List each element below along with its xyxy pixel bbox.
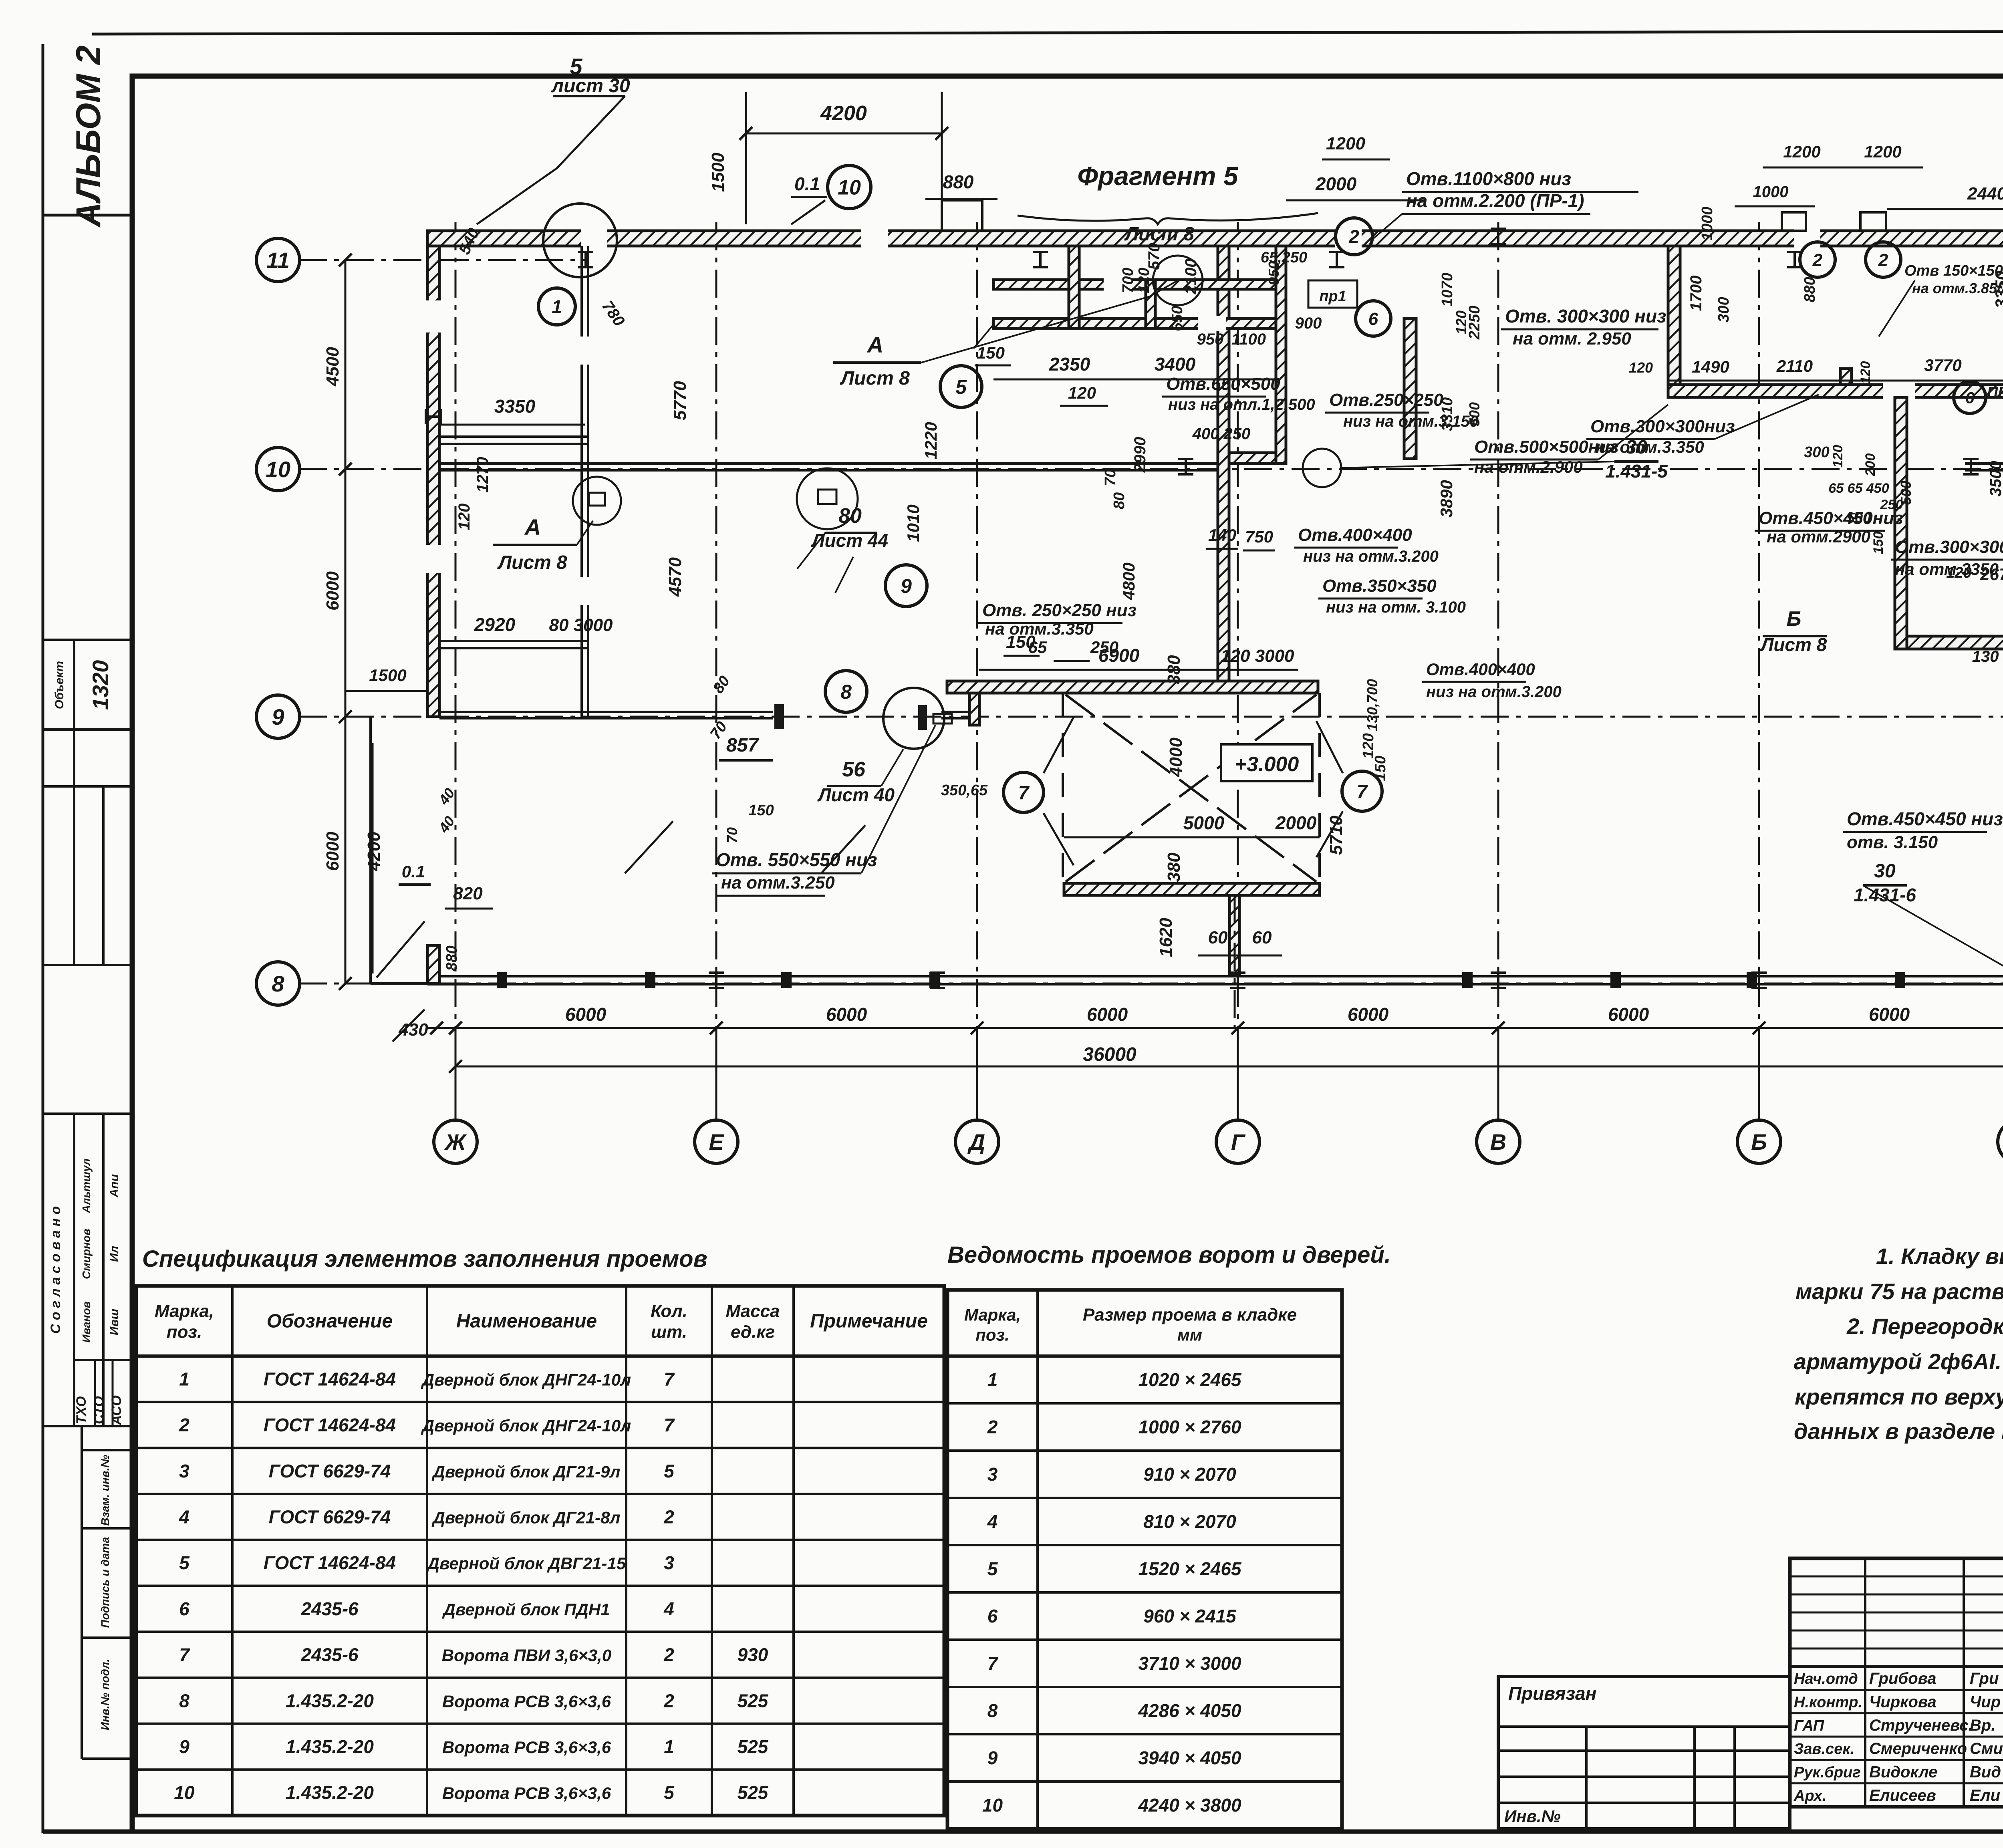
marker circle 7 left [1004, 772, 1044, 812]
bottom frame [43, 1830, 2003, 1834]
svg-text:6000: 6000 [323, 571, 343, 611]
svg-text:880: 880 [943, 171, 974, 192]
circled 2 mid [1336, 218, 1372, 255]
svg-text:7: 7 [664, 1415, 675, 1435]
svg-text:7: 7 [987, 1653, 999, 1674]
svg-text:на отм.2.900: на отм.2.900 [1474, 457, 1583, 476]
svg-text:Лист 8: Лист 8 [840, 368, 910, 389]
svg-text:Апи: Апи [108, 1174, 121, 1198]
svg-text:А: А [524, 514, 541, 540]
svg-text:1320: 1320 [88, 660, 113, 710]
svg-text:6000: 6000 [1087, 1004, 1128, 1025]
svg-text:1700: 1700 [1687, 276, 1705, 311]
svg-text:на отм.3.250: на отм.3.250 [721, 873, 835, 893]
svg-text:СТО: СТО [91, 1396, 107, 1424]
svg-text:1620: 1620 [1156, 918, 1176, 957]
svg-text:9: 9 [179, 1736, 189, 1757]
svg-text:отв. 3.150: отв. 3.150 [1847, 832, 1938, 852]
grid column axis Б [1758, 222, 1760, 1121]
wall anchor symbol [1751, 973, 1767, 988]
svg-text:Ели: Ели [1970, 1787, 2000, 1804]
grid circle Е [695, 1120, 738, 1163]
svg-text:525: 525 [738, 1782, 769, 1803]
svg-text:Ворота РСВ 3,6×3,6: Ворота РСВ 3,6×3,6 [442, 1738, 611, 1757]
svg-text:6000: 6000 [1869, 1004, 1910, 1025]
svg-text:5: 5 [955, 376, 967, 398]
svg-text:6000: 6000 [565, 1004, 607, 1025]
svg-text:0.1: 0.1 [794, 173, 820, 194]
svg-text:на отм.2.200 (ПР-1): на отм.2.200 (ПР-1) [1406, 190, 1584, 211]
grid circle В [1477, 1120, 1520, 1163]
svg-text:430: 430 [398, 1020, 428, 1040]
circled 10 leader [828, 165, 871, 209]
svg-text:Ворота ПВИ 3,6×3,0: Ворота ПВИ 3,6×3,0 [442, 1646, 611, 1665]
svg-text:2250: 2250 [1466, 306, 1483, 340]
svg-text:10: 10 [174, 1782, 195, 1803]
svg-text:низ на отм. 3.100: низ на отм. 3.100 [1326, 599, 1466, 616]
svg-text:650: 650 [1169, 306, 1186, 331]
svg-text:5: 5 [664, 1461, 675, 1481]
svg-text:Отв.450×450низ: Отв.450×450низ [1759, 508, 1903, 528]
wall anchor symbol [1178, 459, 1193, 474]
svg-text:Отв.400×400: Отв.400×400 [1426, 660, 1535, 679]
title block attachment table left [1498, 1677, 1790, 1829]
svg-text:Ж: Ж [444, 1129, 467, 1155]
wall anchor symbol [1230, 973, 1245, 988]
svg-text:130,700: 130,700 [1364, 679, 1380, 731]
svg-text:4240 × 3800: 4240 × 3800 [1138, 1795, 1241, 1816]
svg-text:30: 30 [1626, 437, 1647, 458]
wall anchor symbol [578, 252, 593, 267]
detail circle 80/44 [797, 468, 858, 529]
svg-text:6: 6 [179, 1598, 189, 1619]
svg-text:1010: 1010 [904, 504, 923, 542]
svg-text:120: 120 [1946, 564, 1971, 581]
top-right room wall vertical [1668, 246, 1680, 385]
svg-text:40: 40 [435, 813, 458, 836]
svg-text:низ на отм.3.200: низ на отм.3.200 [1303, 548, 1439, 565]
underbrace list 8 [1018, 213, 1318, 224]
svg-text:ПР-1: ПР-1 [1987, 384, 2003, 401]
svg-text:80 3000: 80 3000 [549, 615, 613, 635]
svg-text:200: 200 [1863, 453, 1878, 477]
svg-text:6000: 6000 [826, 1004, 867, 1025]
svg-text:2: 2 [1878, 250, 1888, 270]
svg-text:2000: 2000 [1275, 812, 1317, 833]
svg-text:Отв.400×400: Отв.400×400 [1298, 525, 1412, 545]
svg-text:950: 950 [1265, 261, 1282, 285]
door detail circle row9 [883, 688, 944, 749]
svg-text:1520 × 2465: 1520 × 2465 [1138, 1558, 1242, 1579]
svg-text:780: 780 [598, 298, 628, 330]
svg-text:Дверной блок ДНГ24-10л: Дверной блок ДНГ24-10л [421, 1416, 631, 1435]
svg-text:570: 570 [1145, 243, 1163, 270]
svg-text:1: 1 [179, 1368, 189, 1389]
svg-text:Отв.300×300низ: Отв.300×300низ [1895, 537, 2003, 557]
svg-text:80: 80 [1111, 492, 1128, 509]
svg-text:шт.: шт. [651, 1322, 687, 1342]
pier in band [1840, 369, 1852, 385]
svg-text:1.431-6: 1.431-6 [1854, 885, 1916, 905]
svg-text:4200: 4200 [364, 832, 384, 871]
break diagonals on left porch [625, 821, 865, 873]
svg-text:3350: 3350 [494, 396, 536, 417]
svg-text:на отм.2900: на отм.2900 [1767, 527, 1870, 546]
svg-text:2: 2 [663, 1644, 674, 1665]
svg-text:2440: 2440 [1967, 184, 2003, 204]
svg-text:120: 120 [455, 504, 473, 530]
svg-text:120 3000: 120 3000 [1221, 646, 1294, 666]
svg-text:6: 6 [1368, 309, 1378, 329]
wall anchor symbol [1033, 252, 1048, 267]
svg-text:3940 × 4050: 3940 × 4050 [1138, 1747, 1241, 1768]
top-middle pier [1069, 246, 1079, 328]
svg-text:525: 525 [738, 1736, 769, 1757]
svg-text:ТХО: ТХО [74, 1396, 89, 1424]
svg-text:ед.кг: ед.кг [731, 1322, 775, 1342]
svg-text:2: 2 [1348, 226, 1359, 247]
grid circle Г [1216, 1120, 1259, 1163]
wall anchor symbol [1491, 973, 1506, 988]
svg-text:Лист 8: Лист 8 [1124, 224, 1194, 245]
svg-text:56: 56 [842, 758, 866, 781]
svg-text:4: 4 [179, 1506, 189, 1527]
svg-text:ГАП: ГАП [1794, 1717, 1824, 1734]
wall anchor symbol [426, 409, 441, 424]
left dimension chain [345, 260, 347, 983]
svg-text:2: 2 [179, 1415, 189, 1435]
wall anchor symbol [1787, 252, 1802, 267]
top-middle partition bands [993, 280, 1276, 289]
wall anchor symbol [1963, 459, 1979, 474]
svg-text:1500: 1500 [708, 153, 728, 192]
svg-text:960 × 2415: 960 × 2415 [1143, 1606, 1237, 1626]
svg-text:3: 3 [987, 1464, 998, 1485]
svg-text:9: 9 [272, 704, 284, 730]
svg-text:1000: 1000 [1753, 183, 1789, 201]
svg-text:1200: 1200 [1864, 142, 1901, 161]
svg-text:300: 300 [1804, 444, 1829, 461]
svg-text:3350: 3350 [1992, 271, 2003, 308]
svg-text:2000: 2000 [1315, 173, 1357, 194]
svg-text:Иванов: Иванов [80, 1301, 93, 1342]
svg-text:Марка,: Марка, [964, 1306, 1021, 1324]
svg-text:Чир: Чир [1970, 1693, 2001, 1711]
circled 8 [825, 671, 867, 712]
svg-text:1: 1 [987, 1369, 998, 1390]
+3.000 level box [1221, 744, 1312, 781]
svg-text:Гри: Гри [1970, 1670, 1999, 1687]
svg-text:Д: Д [967, 1129, 985, 1155]
svg-text:Отв.650×500: Отв.650×500 [1166, 374, 1280, 394]
svg-text:525: 525 [738, 1690, 769, 1711]
svg-text:857: 857 [726, 735, 759, 756]
svg-text:4286 × 4050: 4286 × 4050 [1138, 1700, 1241, 1721]
svg-text:10: 10 [982, 1795, 1003, 1816]
svg-text:910 × 2070: 910 × 2070 [1143, 1464, 1236, 1485]
grid circle 11 [256, 238, 300, 282]
svg-text:2100: 2100 [1182, 259, 1200, 295]
svg-text:крепятся по верху при помо: крепятся по верху при помощи ветровых ри… [1795, 1384, 2003, 1409]
svg-text:2: 2 [987, 1417, 998, 1437]
svg-text:40: 40 [435, 785, 458, 808]
svg-text:на отм.3.350: на отм.3.350 [1596, 437, 1704, 456]
svg-text:1500: 1500 [369, 666, 406, 685]
svg-text:Зав.сек.: Зав.сек. [1794, 1741, 1854, 1757]
svg-text:1. Кладку выполнять из полн: 1. Кладку выполнять из полнотелого кирпи… [1876, 1243, 2003, 1269]
svg-text:низ на отл.1,2.500: низ на отл.1,2.500 [1168, 396, 1315, 413]
wall anchor symbol [1329, 252, 1344, 267]
svg-text:820: 820 [453, 884, 483, 903]
svg-text:150: 150 [977, 343, 1005, 362]
svg-text:3710 × 3000: 3710 × 3000 [1138, 1653, 1241, 1674]
grid column axis Г [1237, 222, 1239, 1121]
svg-text:АСО: АСО [109, 1395, 124, 1425]
svg-text:Взам. инв.№: Взам. инв.№ [99, 1455, 111, 1526]
grid column axis В [1497, 222, 1499, 1121]
svg-text:880: 880 [443, 945, 460, 971]
grid circle 10 [256, 447, 300, 491]
marker circle 7 right [1342, 771, 1382, 811]
left strip empty boxes [43, 785, 132, 788]
svg-text:Ивш: Ивш [108, 1308, 121, 1335]
svg-text:Обозначение: Обозначение [267, 1311, 393, 1332]
svg-text:6: 6 [1965, 389, 1975, 407]
svg-text:380: 380 [1164, 852, 1184, 882]
svg-text:80: 80 [838, 504, 862, 528]
svg-text:Ведомость проемов ворот и дв: Ведомость проемов ворот и дверей. [947, 1242, 1391, 1268]
grid circle 9 [256, 695, 300, 738]
bottom dimension line 36000 [455, 1066, 2003, 1068]
svg-text:300: 300 [1715, 297, 1732, 322]
interior wall along row 10 [439, 462, 1218, 465]
svg-text:на отм.3.350: на отм.3.350 [985, 619, 1094, 638]
left strip: Objekt 1320 box [43, 639, 132, 641]
svg-text:Смериченко: Смериченко [1869, 1740, 1967, 1757]
svg-text:Инв.№: Инв.№ [1504, 1807, 1561, 1826]
svg-text:0.1: 0.1 [402, 862, 425, 881]
grid circle Ж [434, 1120, 477, 1163]
dimension inside ramp [1064, 836, 1320, 838]
svg-text:2435-6: 2435-6 [300, 1598, 359, 1619]
svg-text:Размер проема в кладке: Размер проема в кладке [1083, 1305, 1297, 1325]
svg-text:6000: 6000 [323, 832, 343, 871]
svg-text:Ворота РСВ 3,6×3,6: Ворота РСВ 3,6×3,6 [442, 1692, 611, 1711]
svg-text:Спецификация элементов запол: Спецификация элементов заполнения проемо… [142, 1246, 707, 1272]
bottom wall (thin with gate openings) [427, 975, 2003, 977]
svg-text:А: А [866, 332, 883, 357]
svg-text:1220: 1220 [921, 422, 940, 459]
svg-text:120: 120 [1360, 733, 1377, 758]
top-right partition band [1668, 385, 2003, 397]
svg-text:низ на отм.3.150: низ на отм.3.150 [1343, 413, 1479, 430]
grid column axis Е [715, 222, 717, 1121]
svg-text:ГОСТ 14624-84: ГОСТ 14624-84 [264, 1368, 396, 1389]
svg-text:750: 750 [1245, 527, 1273, 546]
circled 1 [538, 288, 575, 325]
circled 6 mid [1356, 301, 1391, 336]
svg-text:+3.000: +3.000 [1235, 753, 1299, 776]
svg-text:70: 70 [724, 827, 740, 843]
svg-text:80: 80 [710, 673, 733, 697]
svg-text:Отв.450×450 низ: Отв.450×450 низ [1847, 808, 2003, 829]
svg-text:70: 70 [1102, 469, 1119, 486]
svg-text:Лист 40: Лист 40 [817, 784, 895, 805]
mid dims under partition [993, 379, 1274, 381]
top-left partitions [580, 246, 583, 717]
svg-text:3: 3 [179, 1461, 189, 1481]
svg-text:6000: 6000 [1608, 1004, 1649, 1025]
svg-text:2: 2 [663, 1506, 674, 1527]
svg-text:140: 140 [1208, 526, 1236, 544]
svg-text:30: 30 [1874, 861, 1896, 882]
svg-text:9: 9 [901, 575, 912, 597]
wall anchor symbol [709, 973, 724, 988]
svg-text:65: 65 [1028, 638, 1047, 657]
svg-text:250: 250 [1090, 638, 1118, 657]
grid circle Д [955, 1120, 999, 1163]
svg-text:930: 930 [738, 1644, 768, 1665]
svg-text:Отв. 300×300 низ: Отв. 300×300 низ [1505, 306, 1666, 326]
bottom dimension line 6000s [427, 1027, 2003, 1029]
svg-text:3: 3 [664, 1552, 674, 1573]
vestibule bump top [941, 200, 943, 231]
svg-text:2920: 2920 [474, 614, 516, 635]
svg-text:Отв.350×350: Отв.350×350 [1322, 576, 1437, 596]
svg-text:Наименование: Наименование [456, 1311, 597, 1332]
svg-text:3500: 3500 [1987, 461, 2003, 497]
svg-text:60: 60 [1208, 928, 1228, 947]
svg-text:1: 1 [552, 296, 562, 317]
grid column axis Ж [455, 222, 457, 1121]
svg-text:Струченевс.: Струченевс. [1869, 1717, 1973, 1734]
circled 5 [940, 366, 982, 407]
svg-text:500: 500 [1898, 481, 1914, 505]
pier under ramp [1229, 895, 1239, 973]
svg-text:120: 120 [1858, 361, 1873, 384]
svg-text:Объект: Объект [53, 661, 66, 709]
svg-text:Лист 44: Лист 44 [811, 530, 888, 551]
svg-text:низ на отм.3.200: низ на отм.3.200 [1426, 683, 1562, 701]
svg-text:ГОСТ 14624-84: ГОСТ 14624-84 [264, 1415, 396, 1435]
top-right parapet bumps [1782, 212, 1806, 231]
svg-text:60: 60 [1252, 928, 1272, 947]
sheet outer edge top [92, 31, 2003, 34]
svg-text:3310: 3310 [1439, 397, 1456, 431]
central shaft wall west [1218, 246, 1229, 689]
svg-text:5: 5 [664, 1782, 675, 1803]
svg-text:6: 6 [987, 1606, 998, 1626]
svg-text:Г: Г [1231, 1129, 1246, 1155]
svg-text:Чиркова: Чиркова [1869, 1693, 1937, 1711]
svg-text:4800: 4800 [1119, 562, 1138, 600]
svg-text:Лист 8: Лист 8 [1760, 634, 1827, 655]
svg-text:Нач.отд: Нач.отд [1794, 1671, 1858, 1687]
svg-text:Отв. 250×250 низ: Отв. 250×250 низ [982, 601, 1137, 620]
svg-text:9: 9 [987, 1747, 998, 1768]
svg-text:2350: 2350 [1049, 354, 1090, 375]
svg-text:1270: 1270 [474, 457, 492, 493]
svg-text:1200: 1200 [1326, 134, 1365, 153]
svg-text:880: 880 [1801, 277, 1818, 302]
svg-text:4200: 4200 [820, 102, 867, 125]
svg-text:3770: 3770 [1924, 356, 1961, 375]
left porch below row 9 [369, 717, 372, 983]
svg-text:5: 5 [179, 1552, 190, 1573]
svg-text:Дверной блок ДВГ21-15: Дверной блок ДВГ21-15 [426, 1554, 626, 1573]
dim 4200 top [746, 133, 942, 135]
grid circle 8 [256, 962, 300, 1005]
ramp pit (X box) [947, 681, 1318, 693]
interior wall along row 9 [439, 711, 773, 713]
circled 9 [885, 565, 927, 607]
X diagonals [1066, 695, 1316, 882]
svg-text:11: 11 [266, 248, 290, 273]
svg-text:Инв.№ подл.: Инв.№ подл. [99, 1659, 111, 1730]
svg-text:120: 120 [1629, 359, 1653, 376]
svg-text:Отв. 550×550 низ: Отв. 550×550 низ [716, 849, 877, 870]
central shaft wall east [1276, 246, 1286, 464]
soglasovano block [43, 1425, 132, 1427]
svg-text:150: 150 [1871, 532, 1886, 554]
svg-text:Отв 150×150низ: Отв 150×150низ [1904, 262, 2003, 279]
svg-text:Дверной блок ПДН1: Дверной блок ПДН1 [442, 1600, 610, 1619]
svg-text:2990: 2990 [1131, 437, 1149, 473]
grid column axis Д [976, 222, 978, 1121]
svg-text:400 250: 400 250 [1192, 425, 1251, 443]
svg-text:65 65 450: 65 65 450 [1828, 481, 1889, 496]
svg-text:7: 7 [664, 1368, 675, 1389]
svg-text:поз.: поз. [975, 1326, 1009, 1344]
svg-text:2. Перегородки армируются че: 2. Перегородки армируются через 6 рядов … [1846, 1314, 2003, 1339]
svg-text:130 450: 130 450 [1972, 648, 2003, 665]
svg-text:Вид: Вид [1970, 1763, 2001, 1781]
porch pier left [427, 945, 439, 983]
svg-text:2: 2 [1812, 250, 1823, 270]
svg-text:2110: 2110 [1776, 357, 1813, 375]
svg-text:4: 4 [987, 1511, 998, 1532]
svg-text:900: 900 [1295, 314, 1322, 332]
svg-text:1000: 1000 [1699, 207, 1716, 241]
svg-text:Б: Б [1787, 607, 1801, 631]
grid circle А [1998, 1120, 2003, 1163]
svg-text:Дверной блок ДНГ24-10л: Дверной блок ДНГ24-10л [421, 1370, 631, 1389]
grid row axis 9 [299, 716, 2003, 718]
svg-text:2670: 2670 [1980, 565, 2003, 584]
grid circle Б [1737, 1120, 1781, 1163]
svg-text:4500: 4500 [323, 347, 343, 387]
svg-text:1100: 1100 [1231, 331, 1266, 348]
svg-text:7: 7 [179, 1644, 190, 1665]
exterior wall top band [427, 231, 2003, 246]
svg-text:5770: 5770 [670, 381, 690, 420]
svg-text:арматурой 2ф6АІ. Перегородки: арматурой 2ф6АІ. Перегородки длиной боле… [1794, 1349, 2003, 1374]
svg-text:Е: Е [709, 1129, 724, 1155]
svg-text:Отв.300×300низ: Отв.300×300низ [1590, 417, 1735, 436]
svg-text:ГОСТ 6629-74: ГОСТ 6629-74 [269, 1506, 391, 1527]
svg-text:мм: мм [1177, 1326, 1202, 1344]
top-middle pier 2 [1146, 280, 1155, 328]
svg-text:Вр.: Вр. [1970, 1717, 1995, 1734]
svg-text:7: 7 [1018, 782, 1030, 804]
svg-text:4: 4 [663, 1598, 674, 1619]
pier joining ramp band [969, 681, 979, 725]
svg-text:6000: 6000 [1348, 1004, 1389, 1025]
central shaft wall connect [1229, 453, 1276, 464]
svg-text:В: В [1490, 1129, 1506, 1155]
svg-text:500: 500 [1466, 402, 1483, 426]
svg-text:Н.контр.: Н.контр. [1794, 1694, 1862, 1711]
